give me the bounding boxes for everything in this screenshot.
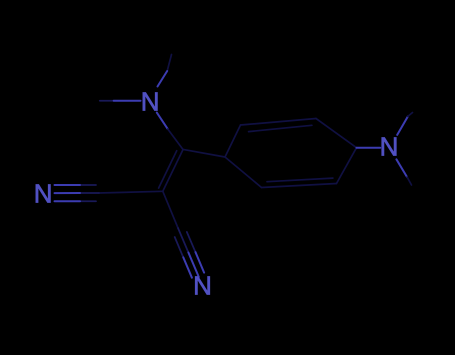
ring inner double-bond line (top edge I-T): [249, 125, 312, 131]
triple bond C4#N4 (lower nitrile C≡N): [175, 228, 204, 278]
svg-text:N: N: [141, 87, 160, 117]
bond N2-C6 (N-methyl, lower right): [396, 159, 411, 185]
bond N1-Cv (amino N to vinyl carbon): [157, 113, 183, 150]
svg-text:N: N: [193, 271, 212, 301]
bond Cv-C(ipso) (vinyl to benzene ring): [183, 149, 225, 157]
bond N2-C5 (N-methyl, upper right): [397, 113, 412, 135]
double bond Cv=Cm (exocyclic C=C): [159, 149, 184, 191]
ring inner double-bond line (bottom edge BR-B): [267, 178, 333, 182]
bond Cm-C3 (to left nitrile carbon): [99, 191, 163, 193]
bond Cm-C4 (to lower nitrile carbon): [163, 191, 178, 228]
bond C2-N1 (N-methyl, upper): [158, 55, 172, 87]
triple bond C3#N3 (left nitrile C≡N): [55, 185, 100, 201]
bond C(para)-N2 (ring to dimethylamino N): [357, 147, 381, 149]
svg-text:N: N: [34, 179, 53, 209]
svg-text:N: N: [380, 132, 399, 162]
bond C1-N1 (N-methyl, left): [100, 100, 141, 102]
benzene ring outline (hexagon X-I-T-R-BR-B): [225, 119, 357, 188]
